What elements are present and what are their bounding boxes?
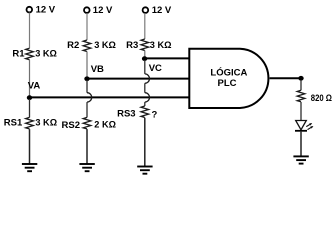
ground (branch 1) [22, 164, 37, 171]
wire: node VB down to hop over VA line [86, 80, 88, 93]
resistor R2 [83, 40, 91, 51]
logic block U1 LÓGICA PLC (AND-gate outline) [189, 49, 268, 108]
svg-text:R3: R3 [126, 40, 138, 51]
svg-text:12 V: 12 V [36, 5, 56, 16]
LED D1 cathode bar [295, 130, 307, 132]
resistor RS2 [83, 117, 91, 129]
wire: node VA horizontal line to PLC input [30, 96, 190, 98]
svg-text:RS2: RS2 [62, 120, 80, 131]
svg-text:R1: R1 [12, 48, 25, 59]
svg-text:3 KΩ: 3 KΩ [35, 48, 57, 58]
12V supply terminal 1 [27, 7, 33, 13]
ground (output branch) [293, 156, 308, 163]
wire: output node down to 820 ohm resistor [300, 80, 302, 90]
wire: node VB horizontal line to PLC input [87, 78, 189, 80]
svg-text:3 KΩ: 3 KΩ [35, 118, 57, 128]
wire: RS1 to ground [29, 129, 31, 164]
wire: node VC down to hop over VB line [144, 60, 146, 74]
wire: supply 3 to R3 [144, 13, 146, 39]
node VA junction dot [27, 95, 32, 100]
svg-text:3 KΩ: 3 KΩ [94, 40, 116, 50]
svg-text:R2: R2 [67, 40, 79, 51]
resistor R3 [141, 39, 149, 50]
svg-text:VB: VB [91, 64, 104, 75]
LED light arrows [306, 123, 313, 130]
wire: node VA down to RS1 [29, 99, 31, 117]
wire: LED to ground [300, 132, 302, 157]
node VC junction dot [142, 56, 147, 61]
wire: R3 to node VC [144, 51, 146, 58]
wire hop: branch 2 over node VA line [87, 93, 92, 102]
wire: 820 ohm to LED [300, 102, 302, 121]
wire: hop to RS3 [144, 102, 146, 106]
wire: supply 2 to R2 [86, 13, 88, 40]
12V supply terminal 3 [143, 7, 149, 13]
ground (branch 2) [79, 164, 94, 171]
svg-text:RS3: RS3 [117, 108, 135, 119]
node VB junction dot [84, 76, 89, 81]
svg-text:?: ? [152, 110, 158, 121]
svg-text:VC: VC [149, 63, 162, 74]
wire: RS2 to ground [86, 129, 88, 164]
12V supply terminal 2 [84, 7, 90, 13]
resistor R1 [26, 48, 34, 59]
svg-text:2 KΩ: 2 KΩ [94, 120, 116, 130]
wire: hop to RS2 [86, 102, 88, 117]
LED D1 (diode triangle) [296, 121, 307, 130]
svg-text:RS1: RS1 [4, 118, 23, 129]
output node junction dot [298, 76, 303, 81]
wire: node VC horizontal line to PLC input [145, 57, 190, 59]
wire: supply 1 to R1 [29, 13, 31, 49]
svg-text:3 KΩ: 3 KΩ [150, 40, 172, 50]
svg-text:VA: VA [28, 81, 41, 92]
svg-text:12 V: 12 V [152, 5, 172, 16]
wire hop: branch 3 over node VA line [145, 93, 150, 102]
wire: between hops on branch 3 [144, 83, 146, 92]
svg-text:820 Ω: 820 Ω [311, 93, 332, 103]
wire: RS3 to ground [144, 118, 146, 167]
svg-text:12 V: 12 V [93, 5, 113, 16]
svg-text:PLC: PLC [218, 78, 237, 89]
resistor RS3 [141, 106, 149, 118]
resistor RS1 [26, 117, 34, 129]
ground (branch 3) [137, 167, 152, 174]
wire: PLC output to node [270, 77, 301, 79]
wire: R2 to node VB [86, 52, 88, 77]
wire hop: branch 3 over node VB line [145, 74, 150, 83]
wire: R1 to node VA [29, 60, 31, 96]
resistor 820 ohm [297, 90, 305, 102]
